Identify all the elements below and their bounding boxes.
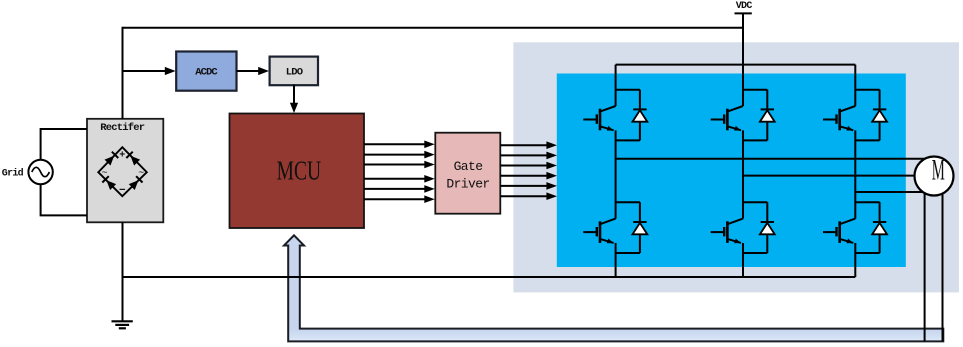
svg-text:ACDC: ACDC xyxy=(195,67,218,79)
svg-text:VDC: VDC xyxy=(736,1,753,12)
svg-text:~: ~ xyxy=(101,169,107,180)
svg-text:Rectifer: Rectifer xyxy=(100,122,145,134)
svg-text:~: ~ xyxy=(138,169,144,180)
svg-text:+: + xyxy=(119,150,125,161)
svg-text:M: M xyxy=(932,154,945,187)
svg-text:LDO: LDO xyxy=(286,67,303,79)
svg-text:MCU: MCU xyxy=(277,156,321,186)
svg-text:Gate: Gate xyxy=(454,159,483,174)
svg-text:Grid: Grid xyxy=(2,168,24,180)
svg-text:−: − xyxy=(119,185,126,197)
svg-text:Driver: Driver xyxy=(446,177,489,192)
